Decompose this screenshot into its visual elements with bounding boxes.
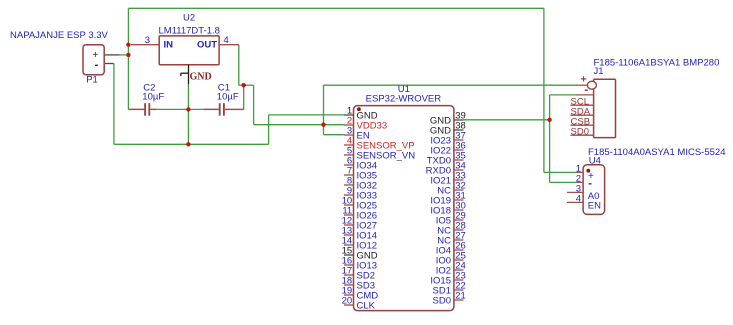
svg-text:ESP32-WROVER: ESP32-WROVER xyxy=(366,94,442,105)
svg-text:21: 21 xyxy=(455,290,466,301)
svg-text:3: 3 xyxy=(145,35,150,46)
svg-text:IN: IN xyxy=(164,39,174,50)
svg-text:4: 4 xyxy=(224,35,229,46)
svg-text:SD0: SD0 xyxy=(571,126,589,137)
svg-text:-: - xyxy=(588,177,592,189)
svg-text:OUT: OUT xyxy=(197,39,217,50)
svg-text:SD0: SD0 xyxy=(433,296,451,307)
svg-text:F185-1106A1BSYA1 BMP280: F185-1106A1BSYA1 BMP280 xyxy=(594,57,720,68)
svg-text:U2: U2 xyxy=(183,12,195,23)
svg-text:GND: GND xyxy=(190,71,212,82)
svg-text:10µF: 10µF xyxy=(217,92,239,103)
svg-text:4: 4 xyxy=(576,194,581,205)
svg-text:-: - xyxy=(95,59,99,71)
svg-text:LM1117DT-1.8: LM1117DT-1.8 xyxy=(159,25,220,36)
svg-text:NAPAJANJE ESP 3.3V: NAPAJANJE ESP 3.3V xyxy=(10,30,109,41)
svg-text:P1: P1 xyxy=(86,74,98,85)
svg-text:EN: EN xyxy=(588,201,601,212)
svg-text:F185-1104A0ASYA1 MICS-5524: F185-1104A0ASYA1 MICS-5524 xyxy=(588,147,725,158)
svg-text:20: 20 xyxy=(342,295,353,306)
svg-text:CLK: CLK xyxy=(357,301,376,312)
svg-text:J1: J1 xyxy=(594,66,604,77)
svg-text:10µF: 10µF xyxy=(142,92,164,103)
